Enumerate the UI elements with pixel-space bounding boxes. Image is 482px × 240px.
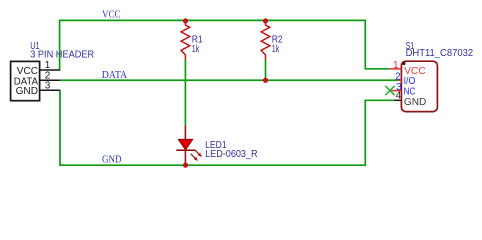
S1 pin 2 stub (398, 79, 402, 81)
resistor R1 (181, 21, 203, 60)
resistor R2 (261, 21, 283, 60)
svg-text:DATA: DATA (102, 70, 128, 81)
wire R1 bottom to LED1 top (184, 60, 186, 125)
junction dot R1/VCC (183, 18, 188, 23)
wire R2 bottom to DATA (265, 60, 267, 80)
no-connect X on S1 pin 3 (385, 86, 394, 95)
svg-text:VCC: VCC (17, 66, 38, 77)
svg-text:1: 1 (45, 60, 51, 71)
svg-text:4: 4 (396, 91, 402, 102)
wire VCC rail from U1 pin1 up and across (60, 20, 390, 70)
svg-text:VCC: VCC (102, 10, 121, 21)
U1 pin 2 (40, 79, 60, 81)
wire GND from U1 pin3 down, across, up to S1 pin4 (60, 90, 394, 165)
junction dot LED1/GND (183, 163, 188, 168)
sensor S1 DHT11_C87032 (385, 41, 473, 112)
connector U1 3 PIN HEADER (11, 41, 95, 101)
svg-text:NC: NC (404, 86, 416, 97)
svg-text:GND: GND (404, 97, 426, 108)
S1 pin 3 stub (no connect) (391, 90, 401, 92)
svg-text:1k: 1k (272, 44, 280, 55)
wire DATA from U1 pin2 to S1 pin2 (60, 79, 398, 81)
svg-text:GND: GND (102, 154, 122, 165)
svg-text:1: 1 (393, 60, 399, 71)
svg-text:LED-0603_R: LED-0603_R (205, 149, 258, 160)
svg-text:1k: 1k (192, 44, 200, 55)
svg-text:DHT11_C87032: DHT11_C87032 (406, 48, 474, 59)
U1 pin 1 (40, 69, 60, 71)
junction dot R2/VCC (263, 18, 268, 23)
S1 pin 4 stub (394, 99, 402, 101)
svg-text:3: 3 (45, 80, 51, 91)
S1 pin 1 stub (389, 68, 401, 70)
LED LED1 (176, 126, 257, 166)
U1 pin 3 (40, 89, 60, 91)
junction dot R2/DATA (263, 78, 268, 83)
svg-text:3 PIN HEADER: 3 PIN HEADER (30, 50, 94, 61)
svg-text:GND: GND (16, 86, 38, 97)
